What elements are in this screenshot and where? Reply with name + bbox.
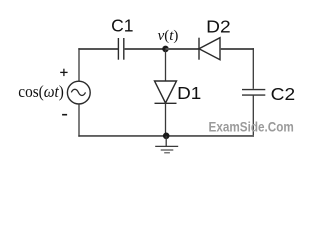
wire C2 bottom plate down to bottom-right corner — [252, 95, 254, 137]
wire node down to D1 triangle — [165, 49, 167, 81]
ground junction dot — [163, 133, 170, 140]
svg-text:ExamSide.Com: ExamSide.Com — [209, 120, 294, 135]
wire source top to top wire — [78, 48, 80, 81]
AC source sine wave — [71, 89, 85, 95]
wire node to D2 cathode bar — [166, 48, 200, 50]
wire D2 anode to top-right corner — [220, 48, 254, 50]
svg-text:D2: D2 — [206, 17, 231, 37]
AC source circle — [67, 81, 90, 104]
capacitor C2 bottom plate — [242, 94, 265, 96]
wire C1 right plate to node v(t) — [124, 48, 166, 50]
node v(t) junction dot — [162, 46, 169, 53]
wire source bottom to bottom wire — [78, 104, 80, 137]
wire top-right corner down to C2 top plate — [252, 48, 254, 89]
diode D2 cathode bar — [198, 38, 200, 60]
ground bar 1 — [155, 145, 178, 147]
label plus — [60, 69, 67, 76]
svg-text:v(t): v(t) — [158, 28, 179, 44]
ground bar 3 — [164, 152, 170, 154]
wire top horizontal (source top to C1 left plate) — [78, 48, 118, 50]
ground bar 2 — [161, 149, 174, 151]
diode D1 triangle — [155, 81, 177, 103]
bottom wire — [78, 135, 254, 137]
capacitor C1 — [118, 38, 123, 60]
svg-text:D1: D1 — [177, 83, 201, 103]
diode D1 cathode bar — [155, 102, 177, 104]
diode D2 triangle — [199, 38, 220, 60]
svg-text:cos(ωt): cos(ωt) — [18, 82, 64, 101]
label minus — [62, 114, 67, 116]
svg-text:C2: C2 — [271, 84, 296, 104]
ground stub — [165, 136, 167, 147]
capacitor C2 top plate — [242, 89, 265, 91]
wire D1 cathode to bottom wire — [165, 103, 167, 136]
svg-text:C1: C1 — [111, 16, 133, 36]
